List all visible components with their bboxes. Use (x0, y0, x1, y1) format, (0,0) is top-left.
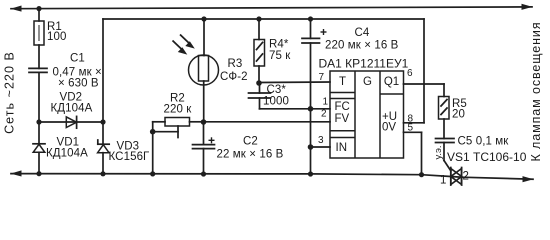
capacitor C1 (29, 53, 102, 90)
diode VD1 (33, 137, 88, 174)
wire pin 7 (259, 72, 330, 83)
capacitor C5 (436, 119, 510, 161)
op-amp U1 IC DA1 box (319, 57, 409, 159)
wire C4 ground line (310, 43, 312, 174)
node R2 R3 C2 (201, 119, 207, 125)
svg-text:К лампам освещения: К лампам освещения (529, 22, 543, 162)
wire bottom mains rail (11, 170, 534, 182)
svg-text:75 к: 75 к (269, 50, 291, 62)
wire pin 6 (404, 68, 445, 97)
svg-text:R3: R3 (228, 58, 243, 70)
svg-text:C5 0,1 мк: C5 0,1 мк (458, 136, 510, 148)
thyristor VS1 triac (440, 150, 527, 187)
svg-text:Сеть ~220 В: Сеть ~220 В (3, 51, 17, 134)
node C4 supply (308, 16, 313, 21)
resistor R1 (34, 21, 67, 45)
node R4 C3 pin7 (256, 80, 262, 86)
svg-text:22 мк × 16 В: 22 мк × 16 В (217, 149, 284, 161)
svg-text:1: 1 (322, 97, 328, 108)
svg-text:7: 7 (318, 72, 324, 83)
node VD2 left (36, 119, 41, 124)
node R3 supply (201, 16, 206, 21)
node pin3 ground line (308, 144, 314, 150)
node R4 supply (256, 16, 261, 21)
svg-text:G: G (363, 76, 372, 88)
svg-text:КС156Г: КС156Г (109, 151, 151, 163)
svg-text:100: 100 (47, 31, 67, 43)
svg-text:VS1 ТС106-10: VS1 ТС106-10 (447, 150, 527, 164)
wire pin 3 (311, 135, 331, 147)
wire thyristor gate (433, 146, 451, 171)
wire +U supply rail (103, 18, 424, 20)
capacitor C3 (249, 83, 289, 109)
node bottom R2 (150, 171, 155, 176)
svg-text:СФ-2: СФ-2 (220, 71, 248, 83)
wire left rail upper (38, 9, 40, 21)
svg-text:5: 5 (408, 123, 414, 134)
svg-text:у.э.: у.э. (433, 146, 444, 160)
svg-text:КД104А: КД104А (51, 103, 93, 115)
svg-text:КД104А: КД104А (46, 148, 88, 160)
node bottom VD3 rail (100, 171, 105, 176)
svg-text:2: 2 (463, 171, 470, 183)
resistor R5 (439, 97, 467, 121)
svg-text:DA1 КР1211ЕУ1: DA1 КР1211ЕУ1 (319, 57, 409, 71)
node bottom ground line (308, 171, 313, 176)
svg-text:IN: IN (336, 142, 348, 154)
wire supply to R3 (203, 19, 205, 56)
svg-text:20: 20 (452, 109, 465, 121)
svg-text:1000: 1000 (263, 96, 289, 108)
svg-text:2: 2 (321, 109, 327, 120)
svg-text:220 к: 220 к (164, 104, 193, 116)
svg-text:FV: FV (335, 113, 350, 125)
svg-text:3: 3 (318, 135, 324, 146)
svg-text:C2: C2 (243, 136, 258, 148)
svg-text:6: 6 (407, 68, 413, 79)
svg-text:C1: C1 (70, 53, 85, 65)
node VD2 right (100, 119, 105, 124)
wire top mains rail (11, 4, 533, 12)
svg-text:Q1: Q1 (384, 76, 399, 88)
wire C1 to VD1 (38, 72, 40, 144)
node bottom 0V (419, 172, 424, 177)
svg-text:FC: FC (335, 101, 350, 113)
svg-text:× 630 В: × 630 В (58, 78, 99, 90)
wire R1 to C1 (38, 45, 40, 68)
node top-left junction (36, 6, 41, 11)
svg-text:1: 1 (440, 175, 447, 187)
node bottom left rail (36, 171, 41, 176)
svg-text:T: T (339, 76, 346, 88)
node pin1 ground line (308, 106, 314, 112)
svg-text:C4: C4 (355, 27, 370, 39)
svg-text:C3*: C3* (267, 84, 287, 96)
diode VD2 (39, 92, 103, 129)
capacitor C4 (302, 19, 399, 52)
node R2 tap (150, 129, 156, 135)
svg-text:220 мк × 16 В: 220 мк × 16 В (325, 40, 399, 52)
resistor R2 trimmer (153, 93, 204, 138)
wire pin 8 (404, 19, 425, 125)
photoresistor R3 (173, 35, 248, 86)
zener diode VD3 (98, 19, 150, 174)
svg-text:R4*: R4* (269, 39, 289, 51)
capacitor C2 (193, 122, 284, 174)
wire R3 to node (203, 81, 205, 122)
svg-text:0V: 0V (382, 122, 396, 134)
wire pin 1 (260, 97, 331, 109)
wire R2 tap to bottom (152, 132, 154, 174)
node bottom C2 (201, 171, 206, 176)
wire pin 5 (404, 123, 422, 175)
wire pin 2 (204, 109, 331, 122)
resistor R4 (254, 19, 291, 83)
